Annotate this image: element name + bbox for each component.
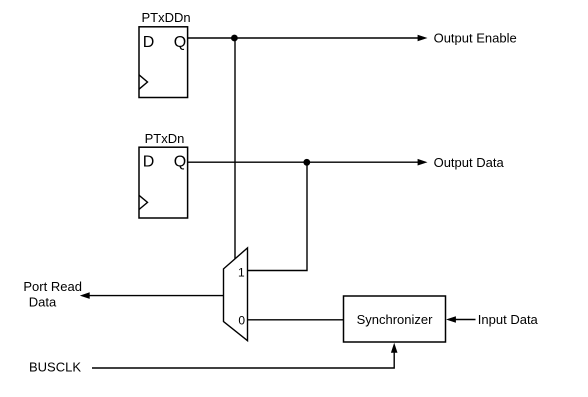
arrowhead into synchronizer right side <box>446 316 456 323</box>
arrowhead Output Data <box>418 159 428 166</box>
arrowhead into synchronizer bottom <box>391 343 398 353</box>
flip-flop U1 clock triangle <box>139 75 148 89</box>
flip-flop U2 clock triangle <box>139 195 148 209</box>
svg-text:Output Enable: Output Enable <box>434 31 517 46</box>
multiplexer MUX body <box>224 248 248 341</box>
wire Q1 to Output Enable <box>188 37 419 39</box>
svg-text:Input Data: Input Data <box>478 312 539 327</box>
flip-flop U1 (PTxDDn) body <box>139 27 188 98</box>
svg-text:BUSCLK: BUSCLK <box>29 359 81 374</box>
svg-text:Q: Q <box>174 34 186 51</box>
arrowhead Output Enable <box>418 35 428 42</box>
svg-text:Q: Q <box>174 154 186 171</box>
svg-text:D: D <box>143 154 155 171</box>
svg-text:Port Read: Port Read <box>23 279 82 294</box>
svg-text:Data: Data <box>29 294 57 309</box>
wire mux output to Port Read Data <box>89 295 224 297</box>
svg-text:PTxDn: PTxDn <box>145 131 185 146</box>
svg-text:PTxDDn: PTxDDn <box>142 10 191 25</box>
synchronizer U3 body <box>344 296 446 342</box>
svg-text:Output Data: Output Data <box>434 155 505 170</box>
wire Input Data to synchronizer <box>455 319 476 321</box>
wire synchronizer to mux input 0 <box>248 319 344 321</box>
arrowhead Port Read Data <box>80 292 90 299</box>
svg-text:0: 0 <box>238 313 245 327</box>
node junction J2 <box>303 159 310 166</box>
wire Q2 to Output Data <box>188 161 419 163</box>
node junction J1 <box>231 35 238 42</box>
wire J1 down to mux select <box>234 38 236 259</box>
wire J2 down and left to mux input 1 <box>248 162 307 270</box>
svg-text:D: D <box>143 34 155 51</box>
wire BUSCLK to synchronizer <box>92 352 394 368</box>
svg-text:Synchronizer: Synchronizer <box>357 312 434 327</box>
svg-text:1: 1 <box>238 266 245 280</box>
flip-flop U2 (PTxDn) body <box>139 147 188 218</box>
